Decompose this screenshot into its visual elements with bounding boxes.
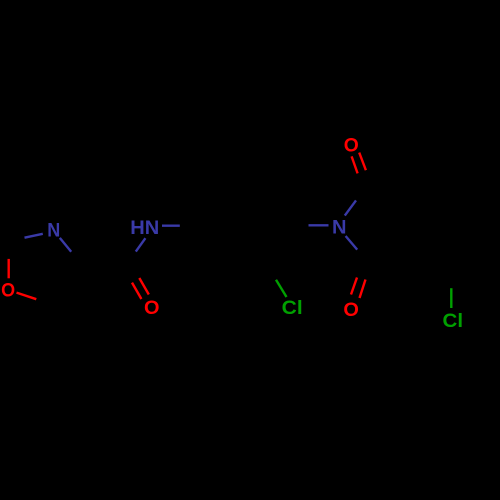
svg-text:Cl: Cl [443,310,464,332]
wire bond amide N-C carbonyl (N half) [136,238,146,251]
svg-text:O: O [344,134,359,156]
wire bottom C3=O double bond line 1 (O half) [351,278,357,295]
svg-text:Cl: Cl [282,297,303,319]
wire top C1=O double bond line 2 (O half) [359,153,366,171]
svg-text:HN: HN [130,217,159,239]
wire bond C5''-Cl (ring chlorine, Cl half) [276,280,287,297]
wire bond N-C1 phthalimide (N half, up-right) [345,200,356,215]
wire bond O1-C5 (oxazolidine, O half) [17,293,37,300]
svg-text:O: O [1,280,15,302]
wire amide C=O double bond line 2 (O half) [139,278,149,295]
wire bond C4'-N phthalimide (N half, horizontal) [309,224,329,226]
wire bond amide N-C1' (N half, to benzene) [162,224,180,226]
svg-text:O: O [144,297,160,319]
wire bond N3-C4 (oxazolidine, N half) [60,238,71,252]
svg-text:N: N [332,217,347,239]
wire bond N-C3 phthalimide (N half, down-right) [346,236,358,250]
wire bond benzo C-Cl (right chlorine, Cl half, vertical) [450,288,452,308]
svg-text:O: O [343,299,359,321]
wire bottom C3=O double bond line 2 (O half) [360,280,366,299]
wire bond O1-C2 (oxazolidine, O half, vertical) [7,259,9,278]
wire bond N3-C2 (oxazolidine, N half) [25,234,43,238]
wire top C1=O double bond line 1 (O half) [352,156,358,173]
wire amide C=O double bond line 1 (O half) [132,283,141,299]
svg-text:N: N [47,220,60,242]
